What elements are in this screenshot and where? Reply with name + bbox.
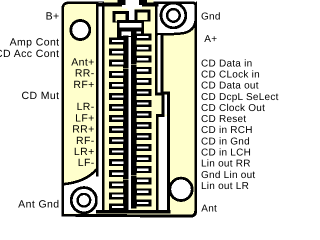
- shroud left wall white channel: [97, 2, 102, 211]
- svg-text:CD Clock Out: CD Clock Out: [201, 103, 265, 114]
- shroud left wall inner line: [102, 3, 105, 212]
- pin left contact: [109, 124, 128, 135]
- shroud bottom bar: [96, 210, 170, 214]
- pin right contact: [131, 131, 151, 142]
- svg-text:RF+: RF+: [73, 79, 94, 91]
- pin right contact: [131, 76, 151, 87]
- svg-text:RR-: RR-: [75, 68, 95, 80]
- pin right contact: [131, 120, 151, 131]
- pin left contact: [109, 69, 128, 80]
- shroud right wall white channel upper: [158, 35, 161, 93]
- svg-text:A+: A+: [204, 34, 217, 45]
- svg-text:CD Acc Cont: CD Acc Cont: [0, 48, 60, 60]
- screw ring top-right outer: [161, 3, 186, 28]
- pin left contact: [109, 179, 128, 190]
- svg-text:Ant: Ant: [201, 203, 217, 214]
- pin left contact: [109, 58, 128, 69]
- screw hole bottom-right: [170, 178, 192, 200]
- pin right contact: [131, 87, 151, 98]
- pin right contact: [131, 43, 151, 54]
- pin left contact: [109, 190, 128, 201]
- black block under power tabs: [117, 20, 144, 37]
- svg-text:LF+: LF+: [75, 112, 95, 124]
- svg-text:B+: B+: [46, 10, 60, 22]
- center rib white strip: [128, 37, 131, 210]
- pin left contact: [109, 102, 128, 113]
- svg-text:CD DcpL SeLect: CD DcpL SeLect: [201, 92, 279, 103]
- pin left contact: [109, 168, 128, 179]
- svg-text:CD Data out: CD Data out: [201, 81, 259, 92]
- svg-text:Ant+: Ant+: [71, 56, 95, 68]
- svg-text:CD in RCH: CD in RCH: [201, 125, 253, 136]
- pin right contact: [131, 54, 151, 65]
- shroud right wall outer line with jog: [162, 35, 169, 214]
- svg-text:RR+: RR+: [72, 124, 95, 136]
- white T above power tabs: [122, 5, 142, 9]
- shroud right wall white channel mid jog: [164, 95, 167, 115]
- svg-text:CD Reset: CD Reset: [201, 114, 246, 125]
- svg-text:RF-: RF-: [76, 135, 95, 147]
- svg-text:Amp Cont: Amp Cont: [10, 37, 60, 49]
- bottom-left mount white region: [62, 171, 98, 214]
- pin right contact: [131, 65, 151, 76]
- connector body outline: [63, 3, 196, 215]
- svg-text:CD Mut: CD Mut: [22, 90, 60, 102]
- pin left contact: [109, 36, 128, 47]
- svg-text:CD in Gnd: CD in Gnd: [201, 136, 250, 147]
- svg-text:Gnd Lin out: Gnd Lin out: [201, 170, 255, 181]
- pin right contact: [131, 186, 151, 197]
- screw hole top-left: [71, 21, 90, 40]
- bottom-left mount boundary line: [62, 170, 96, 185]
- svg-text:Gnd: Gnd: [201, 12, 221, 23]
- pin left contact: [109, 146, 128, 157]
- shroud left wall outer line: [96, 2, 99, 177]
- pin right contact: [131, 32, 151, 43]
- pin left contact: [109, 135, 128, 146]
- wide slot A: [120, 23, 142, 28]
- shroud right wall white channel lower: [159, 116, 167, 211]
- screw ring bottom-left inner: [78, 194, 91, 207]
- svg-text:Lin out RR: Lin out RR: [201, 159, 251, 170]
- wide slot B: [122, 31, 142, 36]
- pin left contact: [109, 157, 128, 168]
- connector body cream fill: [63, 3, 196, 217]
- connector bottom edge: [63, 211, 196, 217]
- pin left contact: [109, 113, 128, 124]
- power tab B+ (left): [112, 11, 128, 23]
- screw ring top-right inner: [167, 9, 180, 22]
- svg-text:CD Data in: CD Data in: [201, 58, 252, 69]
- pin right contact: [131, 98, 151, 109]
- svg-text:Lin out LR: Lin out LR: [201, 181, 249, 192]
- pin right contact: [131, 153, 151, 164]
- svg-text:Ant Gnd: Ant Gnd: [18, 199, 59, 211]
- connector top-right corner redraw: [156, 3, 196, 30]
- screw ring bottom-left outer: [71, 188, 96, 213]
- pin left contact: [109, 47, 128, 58]
- shroud right wall inner line with jogs: [156, 3, 163, 211]
- svg-text:CD in LCH: CD in LCH: [201, 148, 251, 159]
- svg-text:LR+: LR+: [74, 146, 95, 158]
- pin left contact: [109, 91, 128, 102]
- top-right mount boundary line: [157, 21, 196, 34]
- top-right mount white region: [156, 2, 196, 35]
- shroud top bar: [96, 2, 159, 6]
- svg-text:LF-: LF-: [78, 157, 95, 169]
- pin right contact: [131, 175, 151, 186]
- pin right contact: [131, 164, 151, 175]
- svg-text:CD CLock in: CD CLock in: [201, 70, 260, 81]
- svg-text:LR-: LR-: [77, 101, 95, 113]
- pin left contact: [109, 80, 128, 91]
- power tab Gnd (right): [135, 9, 151, 21]
- connector bottom-left corner redraw: [61, 185, 64, 216]
- pin left contact: [109, 201, 128, 212]
- pin right contact: [131, 197, 151, 208]
- pin right contact: [131, 142, 151, 153]
- pin right contact: [131, 109, 151, 120]
